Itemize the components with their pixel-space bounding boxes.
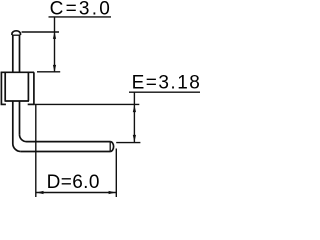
- pin bend outer arc: [13, 144, 21, 152]
- dim C leader shelf underline: [49, 16, 112, 18]
- svg-text:E=3.18: E=3.18: [132, 72, 200, 93]
- pin bend inner arc: [20, 135, 27, 142]
- housing outer right wall: [33, 72, 35, 104]
- housing top edge: [1, 71, 35, 73]
- pin lead vertical right edge: [19, 35, 21, 135]
- dim D left extension line: [35, 104, 37, 197]
- svg-text:D=6.0: D=6.0: [47, 172, 100, 193]
- dim E arrowhead down at pin tip level: [133, 135, 136, 142]
- housing bottom edge: [5, 100, 30, 102]
- dim C arrowhead up at pin top: [53, 32, 56, 39]
- housing inner right wall: [27, 72, 29, 101]
- pin tip rounded cap: [110, 142, 113, 152]
- pin horizontal top edge: [27, 141, 111, 143]
- housing left foot bottom: [1, 103, 6, 105]
- dim D dimension line: [36, 192, 117, 194]
- dim C vertical dimension line: [54, 17, 56, 72]
- pin top rounded cap: [12, 31, 21, 35]
- dim D arrowhead right: [109, 191, 116, 194]
- dim C arrowhead down at housing top: [53, 65, 56, 72]
- pin horizontal bottom edge: [21, 151, 110, 153]
- dim E extension line at pin tip: [116, 142, 140, 144]
- dim E extension line at housing feet: [35, 103, 140, 105]
- housing inner left wall: [4, 72, 6, 101]
- pin lead vertical left edge: [12, 35, 14, 144]
- pin top cap chord: [12, 34, 21, 36]
- dim C extension line at housing top: [37, 71, 60, 73]
- dim E leader shelf underline: [129, 91, 200, 93]
- housing right foot bottom: [28, 103, 35, 105]
- dim D right extension line: [115, 149, 117, 198]
- dim E vertical dimension line: [133, 92, 135, 142]
- pin tip cap chord: [109, 142, 111, 152]
- svg-text:C=3.0: C=3.0: [50, 0, 112, 19]
- dim E arrowhead up at housing feet: [133, 105, 136, 112]
- dim C extension line at pin top: [22, 31, 59, 33]
- housing outer left wall: [0, 72, 2, 104]
- dim D arrowhead left: [36, 191, 43, 194]
